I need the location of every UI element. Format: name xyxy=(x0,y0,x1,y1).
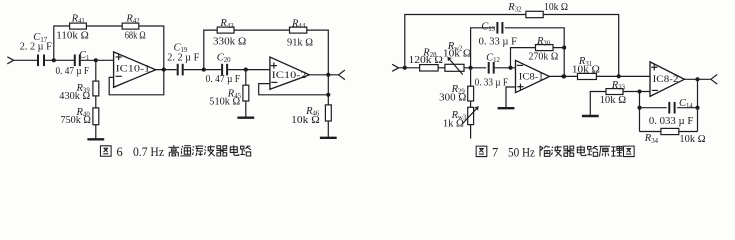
svg-text:120k Ω: 120k Ω xyxy=(409,55,444,66)
svg-text:0. 33 µ F: 0. 33 µ F xyxy=(479,36,518,47)
svg-text:10k Ω: 10k Ω xyxy=(572,64,600,75)
svg-text:10k Ω: 10k Ω xyxy=(544,2,568,13)
svg-text:510k Ω: 510k Ω xyxy=(209,97,240,108)
svg-text:IC10-2: IC10-2 xyxy=(272,70,307,81)
svg-text:2. 2 µ F: 2. 2 µ F xyxy=(167,53,199,64)
svg-text:300 Ω: 300 Ω xyxy=(439,92,467,103)
svg-text:10k Ω: 10k Ω xyxy=(443,48,472,59)
svg-text:R42: R42 xyxy=(125,14,140,26)
svg-text:10k Ω: 10k Ω xyxy=(291,115,320,126)
svg-text:C12: C12 xyxy=(486,52,500,64)
svg-text:C13: C13 xyxy=(481,21,495,33)
svg-text:R43: R43 xyxy=(219,18,234,30)
svg-text:6: 6 xyxy=(117,145,123,159)
svg-text:IC8-1: IC8-1 xyxy=(519,71,544,82)
svg-text:430k Ω: 430k Ω xyxy=(59,91,90,102)
svg-text:68k Ω: 68k Ω xyxy=(125,30,146,41)
svg-text:50 Hz: 50 Hz xyxy=(508,146,535,160)
svg-text:IC8-2: IC8-2 xyxy=(653,74,679,85)
svg-text:270k Ω: 270k Ω xyxy=(529,51,559,62)
svg-text:0.7 Hz: 0.7 Hz xyxy=(133,145,164,159)
svg-text:10k Ω: 10k Ω xyxy=(600,95,627,106)
svg-text:R44: R44 xyxy=(291,19,306,31)
svg-text:0. 033 µ F: 0. 033 µ F xyxy=(649,116,694,127)
svg-text:330k Ω: 330k Ω xyxy=(213,36,247,47)
svg-text:C20: C20 xyxy=(217,53,231,65)
svg-text:1k Ω: 1k Ω xyxy=(443,119,464,130)
svg-text:10k Ω: 10k Ω xyxy=(679,134,706,145)
svg-text:IC10-1: IC10-1 xyxy=(116,64,151,75)
svg-text:0. 47 µ F: 0. 47 µ F xyxy=(56,66,90,77)
svg-text:7: 7 xyxy=(492,146,498,160)
svg-text:R34: R34 xyxy=(644,133,659,145)
svg-text:C1: C1 xyxy=(79,50,89,62)
svg-text:110k Ω: 110k Ω xyxy=(56,30,89,41)
svg-text:R33: R33 xyxy=(611,80,626,92)
svg-text:0. 33 µ F: 0. 33 µ F xyxy=(475,77,509,88)
svg-text:91k Ω: 91k Ω xyxy=(287,37,313,48)
svg-text:R41: R41 xyxy=(71,14,85,26)
svg-text:2. 2 µ F: 2. 2 µ F xyxy=(20,42,52,53)
svg-text:750k Ω: 750k Ω xyxy=(61,115,92,126)
svg-text:0. 47 µ F: 0. 47 µ F xyxy=(206,74,241,85)
svg-text:C14: C14 xyxy=(679,98,693,110)
svg-text:R30: R30 xyxy=(536,36,551,48)
svg-text:R32: R32 xyxy=(507,2,522,14)
